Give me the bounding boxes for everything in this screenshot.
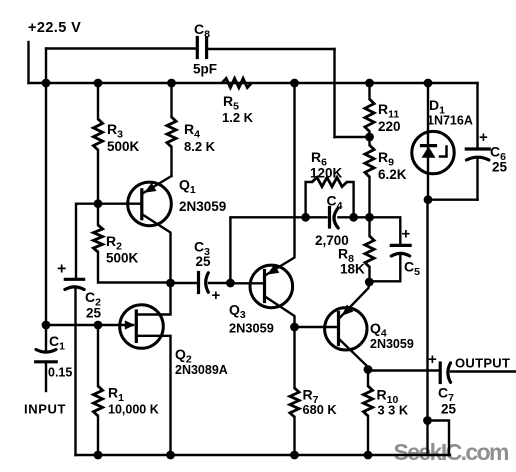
capacitor C3 left plate xyxy=(197,273,200,293)
wire R10 top stub xyxy=(367,370,369,387)
node supply-C8 stub xyxy=(42,79,51,88)
svg-text:Q3: Q3 xyxy=(229,302,246,322)
wire R11 top stub xyxy=(368,83,370,99)
svg-text:500K: 500K xyxy=(107,139,140,154)
capacitor C1 top plate xyxy=(36,350,56,353)
node bus-R7 xyxy=(290,451,299,460)
Q3 arrow xyxy=(267,265,279,275)
wire R6 box left xyxy=(306,182,312,217)
wire bottom bus xyxy=(76,454,451,456)
wire output node xyxy=(368,369,439,371)
wire jog xyxy=(428,421,450,456)
wire +22.5V stub xyxy=(27,42,29,83)
node R11/R9 xyxy=(365,133,374,142)
Q1 base wire xyxy=(76,204,142,277)
capacitor C2 top plate xyxy=(65,278,83,281)
wire R4 top stub xyxy=(170,83,172,117)
Q2 drain wire xyxy=(137,283,171,315)
svg-text:5pF: 5pF xyxy=(193,62,217,77)
Q4 base bar xyxy=(337,313,340,345)
wire R2 bottom xyxy=(98,252,171,283)
wire R4 bottom stub xyxy=(170,147,172,176)
Q4 base wire xyxy=(295,326,339,328)
capacitor C5 bottom plate xyxy=(391,253,409,256)
capacitor C6 top plate xyxy=(466,147,489,150)
node Q3e/Q4b/R7 xyxy=(290,323,299,332)
transistor Q1 circle xyxy=(128,182,172,226)
svg-text:25: 25 xyxy=(492,160,508,175)
Q3 base wire xyxy=(230,282,264,284)
node bus-Q2source xyxy=(166,451,175,460)
wire D1 bottom to C6 xyxy=(428,198,478,200)
Q2 source wire xyxy=(137,336,171,455)
wire R9 top stub xyxy=(368,137,370,145)
wire jog down xyxy=(426,421,428,456)
capacitor C4 right plate xyxy=(334,208,338,228)
svg-text:500K: 500K xyxy=(106,251,139,266)
wire C6 bottom stub xyxy=(476,159,478,200)
resistor R9 xyxy=(365,145,374,177)
transistor Q2 circle xyxy=(120,305,164,349)
Q1 arrow xyxy=(144,183,156,193)
node C4 net right xyxy=(349,213,358,222)
wire C2 down rail xyxy=(74,289,76,456)
svg-text:R3: R3 xyxy=(107,121,123,141)
transistor Q3 circle xyxy=(250,265,293,308)
wire C8 right xyxy=(208,48,335,50)
node bus-R3 xyxy=(94,79,103,88)
Q1 collector diagonal xyxy=(143,176,172,194)
svg-text:C5: C5 xyxy=(404,259,420,279)
svg-text:+: + xyxy=(57,261,66,278)
svg-text:R1: R1 xyxy=(108,385,124,405)
node D1 bottom xyxy=(424,195,433,204)
svg-text:R4: R4 xyxy=(184,121,200,141)
svg-text:25: 25 xyxy=(86,306,102,321)
wire D1 down rail xyxy=(426,200,428,421)
svg-text:INPUT: INPUT xyxy=(24,402,66,417)
svg-text:6.2K: 6.2K xyxy=(378,167,407,182)
svg-text:18K: 18K xyxy=(340,262,365,277)
svg-text:220: 220 xyxy=(378,119,401,134)
capacitor C2 bottom plate xyxy=(65,287,84,290)
svg-text:Q1: Q1 xyxy=(179,177,196,197)
resistor R6 xyxy=(312,177,347,186)
Q3 collector diagonal xyxy=(265,83,295,276)
wire C8 left xyxy=(46,47,197,49)
Q1 emitter diagonal xyxy=(143,215,171,284)
diode D1 zener mark xyxy=(440,147,447,157)
svg-text:8.2 K: 8.2 K xyxy=(184,139,216,154)
wire input node xyxy=(46,324,133,326)
node bus-R1 xyxy=(94,451,103,460)
wire C5 bottom xyxy=(369,256,400,282)
capacitor C6 bottom plate xyxy=(467,157,489,160)
svg-text:SeekIC.com: SeekIC.com xyxy=(394,439,510,465)
wire C4 right xyxy=(339,216,370,218)
node C4net/R9/R8 xyxy=(365,213,374,222)
wire R8 top stub xyxy=(368,217,370,236)
wire bus right corner xyxy=(476,83,478,148)
Q3 emitter diagonal xyxy=(265,297,295,328)
wire R10 bottom stub xyxy=(367,416,369,455)
wire output terminal xyxy=(451,370,516,372)
node bus-R11 xyxy=(365,79,374,88)
svg-text:10,000 K: 10,000 K xyxy=(108,403,159,417)
wire input terminal xyxy=(45,362,47,391)
node Q4e/R10/output xyxy=(364,365,373,374)
svg-text:R9: R9 xyxy=(378,149,394,169)
node C3/Q3base/C4wire xyxy=(226,279,235,288)
svg-text:1.2 K: 1.2 K xyxy=(222,110,254,125)
node jog xyxy=(423,416,432,425)
transistor Q4 circle xyxy=(325,308,367,350)
capacitor C7 left plate xyxy=(439,363,442,383)
wire C3 right xyxy=(209,282,230,284)
resistor R3 xyxy=(93,119,102,150)
wire R6 box right xyxy=(347,182,354,217)
capacitor C4 left plate xyxy=(328,208,331,228)
wire R9 bottom stub xyxy=(368,177,370,217)
svg-text:1N716A: 1N716A xyxy=(427,114,473,128)
svg-text:R11: R11 xyxy=(378,101,399,121)
diode D1 circle xyxy=(412,131,454,173)
capacitor C3 right plate xyxy=(206,273,209,292)
resistor R1 top stub xyxy=(97,325,99,386)
node R3/R2/base xyxy=(94,199,103,208)
wire C1 top stub xyxy=(45,325,47,351)
Q4 emitter diagonal xyxy=(339,339,368,370)
Q2 channel bar xyxy=(135,311,138,342)
capacitor C5 top plate xyxy=(391,244,410,247)
svg-text:2N3059: 2N3059 xyxy=(179,199,226,214)
wire C3 left xyxy=(171,282,198,284)
svg-text:+: + xyxy=(212,287,221,304)
wire R11 bottom stub xyxy=(368,132,370,138)
Q1 base bar xyxy=(140,190,143,219)
wire D1 line xyxy=(427,83,429,200)
resistor R1 xyxy=(93,386,102,416)
wire R3 top stub xyxy=(97,83,99,119)
node bus-R4 xyxy=(167,79,176,88)
resistor R4 xyxy=(167,117,176,147)
svg-text:2N3089A: 2N3089A xyxy=(175,363,228,377)
node R8/Q4c/C5 xyxy=(365,278,374,287)
wire R3-R2 stub xyxy=(97,150,99,204)
svg-text:25: 25 xyxy=(196,254,212,269)
Q4 collector diagonal xyxy=(339,282,369,319)
svg-text:680 K: 680 K xyxy=(303,402,338,417)
wire C8 to R11/R9 node xyxy=(335,136,370,138)
wire R2 top stub xyxy=(97,204,99,225)
Q3 base bar xyxy=(263,271,266,302)
svg-text:+: + xyxy=(479,129,488,146)
resistor R2 xyxy=(93,225,102,252)
node input-R1 xyxy=(94,321,103,330)
wire C4 left xyxy=(306,216,327,218)
resistor R10 xyxy=(363,386,372,416)
svg-text:+: + xyxy=(428,351,437,368)
wire R7 top stub xyxy=(293,327,295,388)
node bus-D1 xyxy=(424,79,433,88)
capacitor C7 right plate xyxy=(448,363,451,382)
wire C8 drop xyxy=(333,49,335,137)
svg-text:OUTPUT: OUTPUT xyxy=(455,356,510,371)
svg-text:2N3059: 2N3059 xyxy=(229,321,274,336)
capacitor C8 right plate xyxy=(205,38,208,58)
svg-text:120K: 120K xyxy=(310,166,343,181)
svg-text:0.15: 0.15 xyxy=(48,366,72,380)
svg-text:3 3 K: 3 3 K xyxy=(378,403,409,418)
wire C8 stub xyxy=(45,49,47,84)
Q4 arrow xyxy=(342,305,354,316)
svg-text:+: + xyxy=(402,226,411,243)
Q2 gate arrow xyxy=(125,320,135,329)
wire node to C4 net xyxy=(230,217,305,283)
node input-C1 xyxy=(42,321,51,330)
svg-text:+22.5 V: +22.5 V xyxy=(28,20,81,36)
resistor R5 xyxy=(222,78,252,87)
capacitor C1 bottom plate xyxy=(36,360,57,363)
wire left rail xyxy=(45,83,47,325)
wire top supply bus xyxy=(29,82,478,84)
wire R8 bottom stub xyxy=(368,267,370,282)
capacitor C8 left plate xyxy=(196,38,199,58)
resistor R11 xyxy=(365,99,374,132)
svg-text:25: 25 xyxy=(441,402,457,417)
resistor R8 xyxy=(365,236,374,267)
wire C4 net to C5 xyxy=(370,217,401,244)
node Q1e/Q2d/C3 xyxy=(166,279,175,288)
wire R1 bottom stub xyxy=(97,416,99,455)
wire R7 bottom stub xyxy=(293,417,295,455)
diode D1 triangle xyxy=(422,147,436,158)
svg-text:2N3059: 2N3059 xyxy=(370,337,414,351)
node bus-Q3 xyxy=(290,79,299,88)
diode D1 cathode bar xyxy=(422,144,436,147)
resistor R7 xyxy=(290,388,299,417)
node C4 net left xyxy=(301,213,310,222)
node bus-R10 xyxy=(364,451,373,460)
